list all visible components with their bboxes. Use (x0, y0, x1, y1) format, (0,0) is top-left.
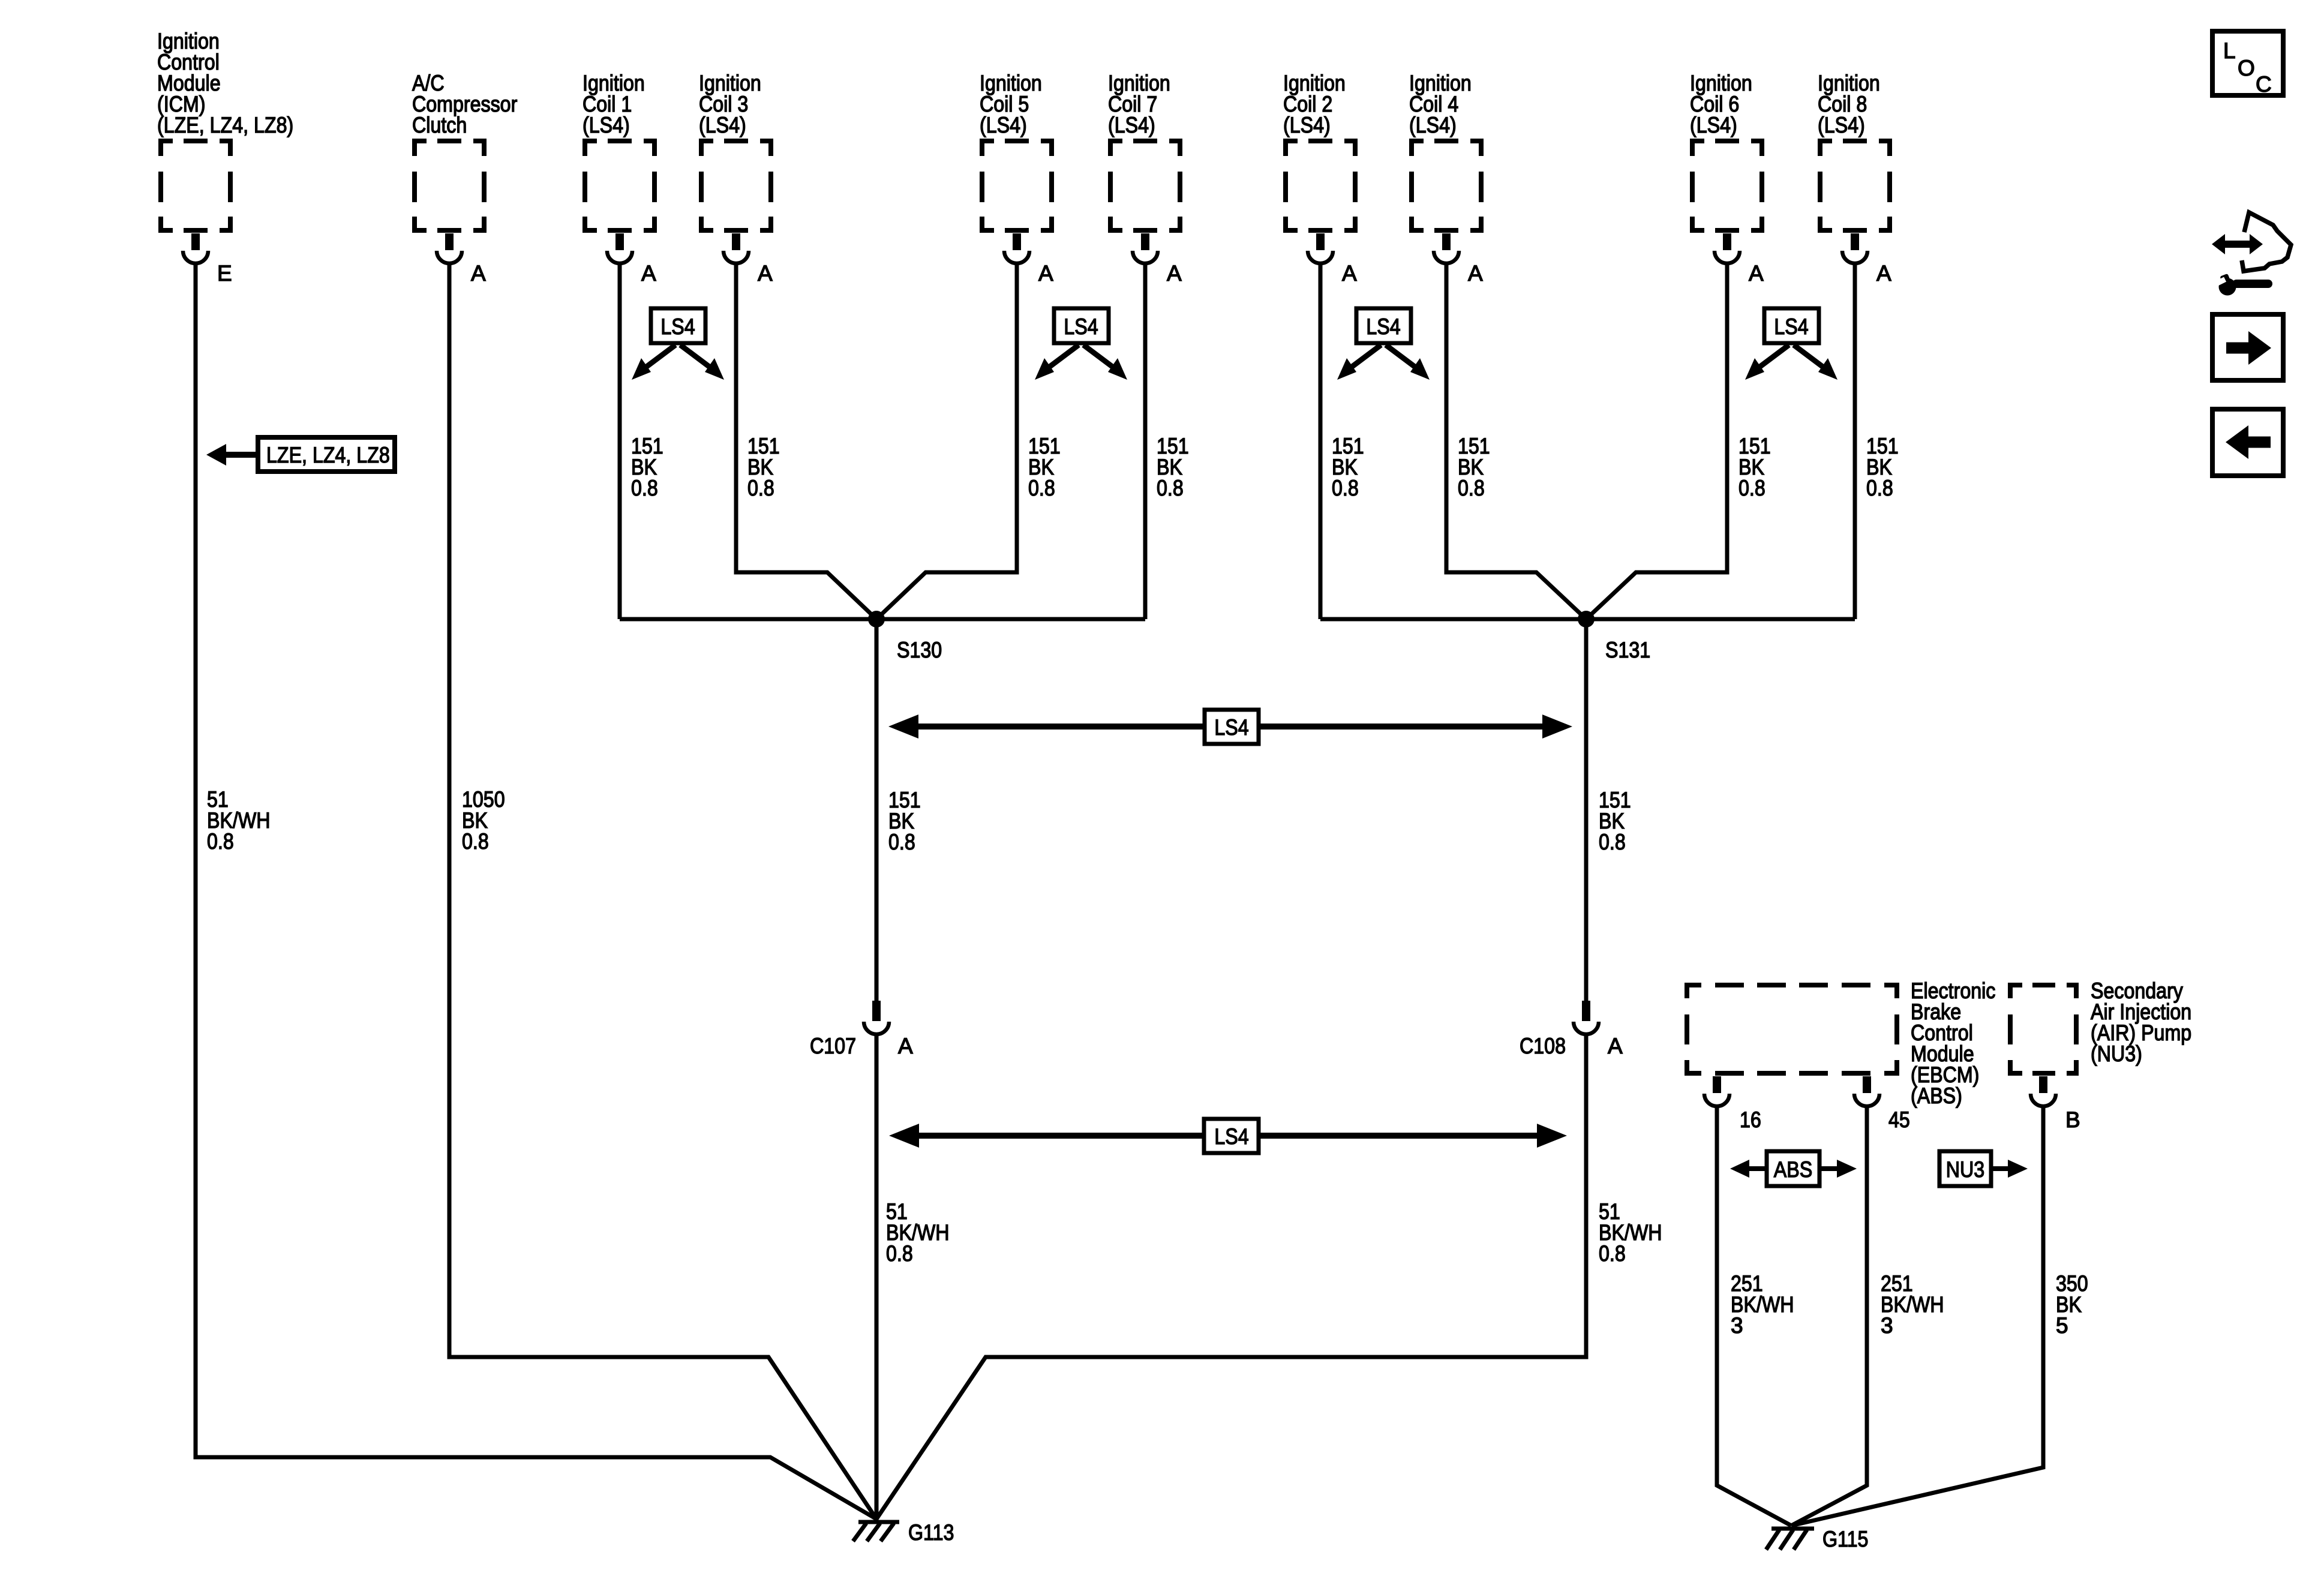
AIR pump dashed box (2008, 983, 2079, 1076)
EBCM label (1911, 978, 1995, 1108)
svg-text:LS4: LS4 (660, 314, 695, 339)
svg-text:0.8: 0.8 (1157, 476, 1184, 500)
ignition coil 8 dashed box (1818, 139, 1892, 233)
ignition coil 5 label (980, 71, 1042, 137)
ignition coil 5 pin A connector (1004, 233, 1029, 263)
svg-text:B: B (2065, 1107, 2080, 1132)
coils 2-4 LS4 flag box (1356, 308, 1411, 343)
svg-text:A: A (898, 1034, 913, 1058)
ignition coil 7 pin A connector (1133, 233, 1158, 263)
svg-text:LS4: LS4 (1214, 1124, 1248, 1149)
svg-text:(LZE, LZ4, LZ8): (LZE, LZ4, LZ8) (157, 113, 293, 137)
wire label ICM 51 BK/WH 0.8 (207, 787, 271, 854)
LS4 range arrow 1 box (1205, 710, 1259, 744)
ground G113 symbol (853, 1522, 899, 1541)
svg-text:A: A (641, 261, 656, 286)
wire label C108 drop 51 BK/WH 0.8 (1599, 1199, 1662, 1266)
coils 6-8 LS4 flag left arrow (1745, 345, 1789, 380)
svg-text:S130: S130 (897, 638, 942, 662)
ignition coil 4 pin A connector (1434, 233, 1459, 263)
ABS flag left arrow (1730, 1160, 1767, 1178)
ignition coil 3 label (699, 71, 761, 137)
EBCM dashed box (1685, 983, 1899, 1076)
svg-text:G113: G113 (908, 1520, 954, 1545)
wire C107 to G113 (875, 1033, 879, 1522)
ABS flag box (1767, 1151, 1819, 1186)
svg-text:5: 5 (2056, 1313, 2068, 1338)
wire label ignition coil 2 151 BK 0.8 (1332, 434, 1364, 500)
wire S130 horizontal bus (620, 617, 1145, 622)
wire coil 7 to S130 bus (1143, 262, 1148, 619)
wire label 16 drop 251 BK/WH 3 (1731, 1271, 1794, 1338)
svg-text:0.8: 0.8 (1739, 476, 1765, 500)
wire label A/C 1050 BK 0.8 (462, 787, 505, 854)
svg-text:LS4: LS4 (1214, 715, 1248, 740)
svg-text:C107: C107 (810, 1034, 856, 1058)
AIR pump label (2091, 978, 2191, 1066)
ABS flag right arrow (1819, 1160, 1857, 1178)
A/C compressor clutch dashed box (412, 139, 487, 233)
svg-text:LS4: LS4 (1064, 314, 1098, 339)
wire label ignition coil 7 151 BK 0.8 (1157, 434, 1189, 500)
svg-text:O: O (2238, 56, 2255, 80)
ignition coil 3 pin A connector (723, 233, 749, 263)
svg-text:0.8: 0.8 (1028, 476, 1055, 500)
svg-text:0.8: 0.8 (1458, 476, 1485, 500)
svg-text:0.8: 0.8 (1599, 830, 1626, 854)
LS4 range arrow 2 right head (1537, 1124, 1567, 1148)
ignition coil 8 pin A connector (1842, 233, 1867, 263)
svg-text:(LS4): (LS4) (1690, 113, 1737, 137)
ignition coil 8 label (1818, 71, 1880, 137)
EBCM pin 45 connector (1854, 1076, 1879, 1106)
ignition coil 7 dashed box (1108, 139, 1182, 233)
splice S130 junction dot (868, 611, 885, 628)
coils 2-4 LS4 flag left arrow (1337, 345, 1381, 380)
wire label B drop 350 BK 5 (2056, 1271, 2088, 1338)
svg-text:S131: S131 (1605, 638, 1650, 662)
wire C108 to G113 (876, 1033, 1586, 1519)
back arrow box (2212, 409, 2283, 476)
svg-text:ABS: ABS (1774, 1157, 1812, 1182)
AIR pump pin B connector (2031, 1076, 2056, 1106)
coils 1-3 LS4 flag box (651, 308, 705, 343)
svg-text:(LS4): (LS4) (699, 113, 746, 137)
ignition coil 5 dashed box (980, 139, 1054, 233)
NU3 flag box (1939, 1151, 1991, 1186)
ignition coil 1 dashed box (582, 139, 657, 233)
wire coil 2 to S131 bus (1319, 262, 1323, 619)
svg-text:3: 3 (1881, 1313, 1893, 1338)
wire label ignition coil 6 151 BK 0.8 (1739, 434, 1771, 500)
svg-text:A: A (1468, 261, 1483, 286)
svg-text:0.8: 0.8 (631, 476, 658, 500)
svg-text:(LS4): (LS4) (1818, 113, 1865, 137)
svg-text:A: A (1608, 1034, 1623, 1058)
svg-text:LZE, LZ4, LZ8: LZE, LZ4, LZ8 (266, 443, 390, 467)
svg-text:0.8: 0.8 (1599, 1241, 1626, 1266)
svg-text:LS4: LS4 (1774, 314, 1808, 339)
svg-text:0.8: 0.8 (1866, 476, 1893, 500)
svg-text:(LS4): (LS4) (582, 113, 630, 137)
wire EBCM pin 16 to G115 (1717, 1106, 1791, 1526)
wire label ignition coil 5 151 BK 0.8 (1028, 434, 1061, 500)
wire EBCM pin 45 to G115 (1791, 1106, 1867, 1526)
coils 5-7 LS4 flag left arrow (1035, 345, 1079, 380)
connector C107 (864, 1001, 889, 1034)
ignition coil 6 pin A connector (1715, 233, 1740, 263)
svg-text:A: A (471, 261, 486, 286)
wire coil 3 to S130 (736, 262, 876, 619)
svg-text:(ABS): (ABS) (1911, 1083, 1962, 1108)
wire label ignition coil 1 151 BK 0.8 (631, 434, 663, 500)
splice S131 junction dot (1578, 611, 1595, 628)
svg-text:0.8: 0.8 (462, 829, 489, 854)
svg-text:16: 16 (1740, 1107, 1761, 1132)
svg-text:0.8: 0.8 (888, 830, 915, 854)
svg-text:3: 3 (1731, 1313, 1743, 1338)
LS4 range arrow 1 left head (888, 715, 918, 739)
svg-text:A: A (758, 261, 773, 286)
LS4 range arrow 2 shaft (909, 1133, 1547, 1139)
LS4 range arrow 2 left head (889, 1124, 919, 1148)
wire label ignition coil 3 151 BK 0.8 (747, 434, 780, 500)
service icon panel outline (2242, 212, 2291, 271)
wire A/C clutch to G113 (449, 262, 876, 1519)
svg-text:(NU3): (NU3) (2091, 1041, 2142, 1066)
ignition control module ICM dashed box (158, 139, 233, 233)
LS4 range arrow 1 shaft (909, 724, 1552, 730)
ignition coil 4 label (1409, 71, 1472, 137)
connector C108 (1574, 1001, 1599, 1034)
coils 6-8 LS4 flag box (1764, 308, 1819, 343)
ignition coil 1 pin A connector (607, 233, 632, 263)
A/C compressor clutch pin A connector (437, 233, 462, 263)
svg-text:0.8: 0.8 (207, 829, 234, 854)
ignition coil 4 dashed box (1409, 139, 1484, 233)
coils 5-7 LS4 flag right arrow (1083, 345, 1127, 380)
svg-text:45: 45 (1888, 1107, 1910, 1132)
svg-text:C: C (2256, 72, 2272, 97)
svg-text:E: E (217, 261, 232, 286)
wire coil 4 to S131 (1446, 262, 1586, 619)
wire label S131 drop 151 BK 0.8 (1599, 788, 1631, 854)
svg-text:0.8: 0.8 (1332, 476, 1359, 500)
coils 5-7 LS4 flag box (1054, 308, 1109, 343)
LS4 range arrow 2 box (1204, 1119, 1259, 1153)
svg-text:(LS4): (LS4) (1283, 113, 1331, 137)
LZE LZ4 LZ8 flag arrow (206, 444, 257, 466)
svg-text:G115: G115 (1822, 1527, 1868, 1551)
wire S130 to C107 (875, 619, 879, 1002)
wire AIR pump to G115 (1791, 1106, 2043, 1526)
svg-text:L: L (2223, 38, 2236, 63)
svg-text:(LS4): (LS4) (980, 113, 1027, 137)
ignition coil 6 dashed box (1690, 139, 1764, 233)
svg-text:A: A (1038, 261, 1053, 286)
forward arrow box (2212, 314, 2283, 380)
svg-text:A: A (1342, 261, 1357, 286)
wire coil 8 to S131 bus (1853, 262, 1857, 619)
A/C compressor clutch label (412, 71, 517, 137)
LS4 range arrow 1 right head (1542, 715, 1572, 739)
ignition coil 2 label (1283, 71, 1346, 137)
wire label ignition coil 4 151 BK 0.8 (1458, 434, 1490, 500)
NU3 flag right arrow (1991, 1160, 2028, 1178)
svg-text:(LS4): (LS4) (1409, 113, 1457, 137)
svg-text:LS4: LS4 (1366, 314, 1400, 339)
ignition coil 6 label (1690, 71, 1752, 137)
coils 1-3 LS4 flag right arrow (680, 345, 724, 380)
ignition control module ICM label (157, 29, 293, 137)
svg-text:C108: C108 (1520, 1034, 1566, 1058)
service info icon double arrow (2212, 234, 2263, 254)
LZE LZ4 LZ8 flag box (258, 437, 395, 472)
svg-text:A: A (1749, 261, 1764, 286)
wire label ignition coil 8 151 BK 0.8 (1866, 434, 1899, 500)
service icon wrench (2212, 274, 2272, 296)
wire S131 horizontal bus (1320, 617, 1855, 622)
svg-text:0.8: 0.8 (747, 476, 774, 500)
coils 2-4 LS4 flag right arrow (1386, 345, 1430, 380)
wire coil 6 to S131 (1586, 262, 1727, 619)
svg-text:A: A (1167, 261, 1182, 286)
ignition coil 3 dashed box (699, 139, 773, 233)
wire ICM to G113 (196, 262, 876, 1519)
ignition coil 1 label (582, 71, 645, 137)
EBCM pin 16 connector (1704, 1076, 1730, 1106)
svg-text:Clutch: Clutch (412, 113, 467, 137)
ground G115 symbol (1766, 1529, 1814, 1550)
svg-text:0.8: 0.8 (886, 1241, 913, 1266)
LOC reference box (2212, 31, 2283, 97)
svg-text:A: A (1876, 261, 1891, 286)
svg-text:NU3: NU3 (1946, 1157, 1984, 1182)
ignition coil 2 dashed box (1283, 139, 1358, 233)
wire label 45 drop 251 BK/WH 3 (1881, 1271, 1944, 1338)
coils 6-8 LS4 flag right arrow (1794, 345, 1837, 380)
ignition coil 2 pin A connector (1308, 233, 1333, 263)
wire S131 to C108 (1584, 619, 1589, 1002)
wire coil 1 to S130 bus (618, 262, 622, 619)
wire label C107 drop 51 BK/WH 0.8 (886, 1199, 950, 1266)
ignition coil 7 label (1108, 71, 1170, 137)
ignition control module ICM pin E connector (183, 233, 208, 263)
wire label S130 drop 151 BK 0.8 (888, 788, 921, 854)
svg-text:(LS4): (LS4) (1108, 113, 1155, 137)
wire coil 5 to S130 (876, 262, 1017, 619)
coils 1-3 LS4 flag left arrow (632, 345, 675, 380)
